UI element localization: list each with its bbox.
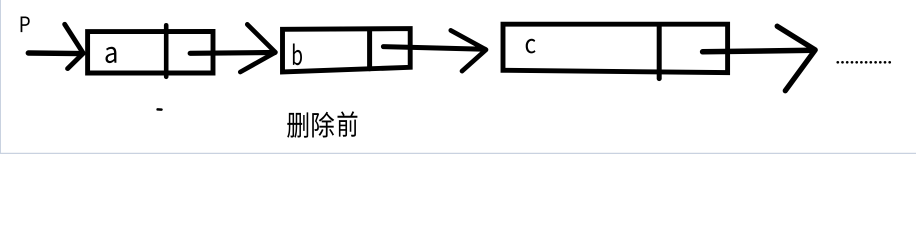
canvas left border [0,0,2,154]
arrowhead at end pointing to continuation [777,26,815,91]
node b: box outline [283,29,411,72]
pointer label P [21,17,30,33]
canvas bottom border [0,152,916,154]
arrowhead into node b [240,24,275,72]
label a [105,47,116,63]
wire: next pointer of b [383,47,485,50]
arrowhead into node c [451,30,486,71]
node c: box outline [503,24,728,72]
wire: arrow shaft from P to node a [28,50,81,56]
label b [293,44,302,66]
caption 前 [337,111,357,136]
node c: divider between data and next fields [657,25,662,79]
stray pen mark below node a [158,108,162,111]
wire: next pointer of c toward rest of list [703,50,814,52]
caption 删 [287,112,308,137]
label c [526,39,536,54]
node b: divider between data and next fields [367,29,372,69]
arrowhead into node a [65,24,84,68]
node a: divider between data and next fields [164,25,169,77]
node a: box outline [88,31,213,73]
canvas background [0,0,916,154]
caption 除 [312,112,334,138]
wire: next pointer of a [190,50,275,56]
ellipsis dots: continuation of list [836,61,891,64]
